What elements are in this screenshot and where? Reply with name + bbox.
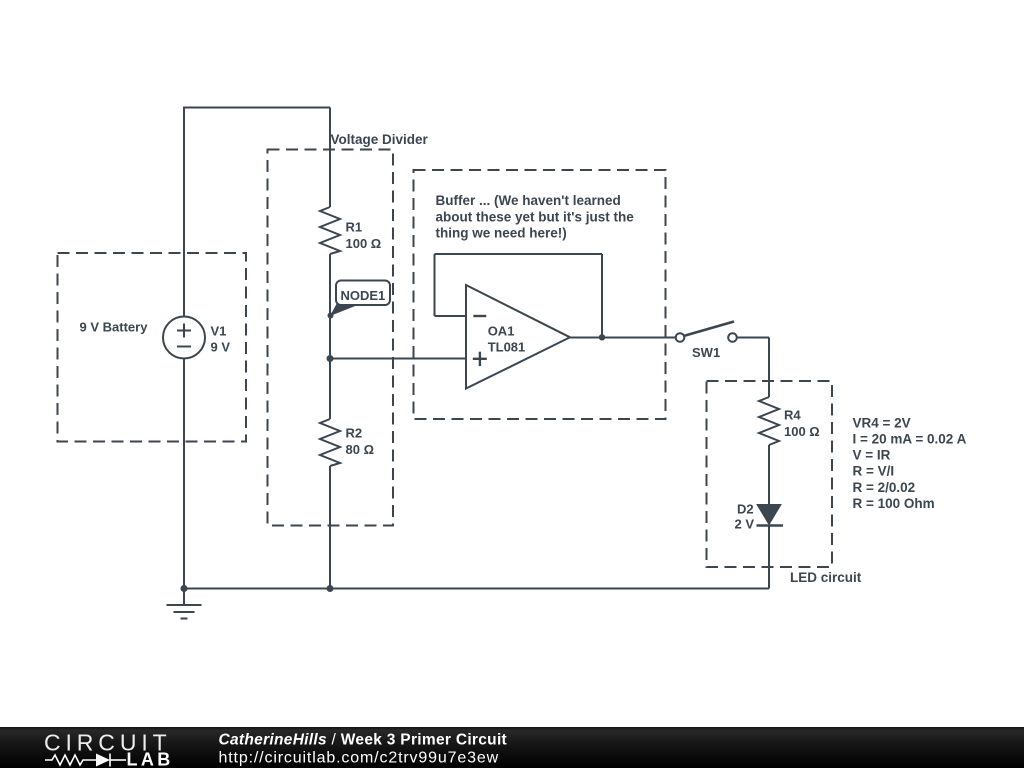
LED circuit dashed enclosure [707, 381, 833, 567]
wire minus input [435, 315, 467, 317]
svg-text:2 V: 2 V [735, 517, 755, 532]
svg-text:http://circuitlab.com/c2trv99u: http://circuitlab.com/c2trv99u7e3ew [219, 750, 500, 767]
battery dashed enclosure [58, 253, 247, 442]
footer bar [0, 727, 1024, 768]
svg-text:VR4 = 2V: VR4 = 2V [853, 415, 911, 430]
wire LED to rail [768, 526, 770, 589]
wire feedback top horizontal [435, 253, 603, 255]
svg-text:thing we need here!): thing we need here!) [436, 226, 567, 241]
svg-text:V = IR: V = IR [853, 448, 891, 463]
wire battery top vertical [183, 108, 185, 317]
LED D2 [757, 505, 784, 526]
svg-text:OA1: OA1 [488, 324, 515, 339]
node ground junction divider [327, 585, 334, 592]
resistor R2 [320, 419, 340, 466]
ground [183, 589, 185, 606]
svg-text:R = 2/0.02: R = 2/0.02 [853, 480, 916, 495]
svg-text:R = V/I: R = V/I [853, 464, 895, 479]
wire feedback left vertical [434, 254, 436, 316]
voltage divider dashed enclosure [268, 150, 394, 526]
svg-text:9 V Battery: 9 V Battery [80, 320, 149, 335]
switch SW1 [676, 322, 737, 342]
wire node to op-amp plus input [330, 358, 466, 360]
svg-text:LED circuit: LED circuit [790, 570, 862, 585]
svg-text:CatherineHills / Week 3 Primer: CatherineHills / Week 3 Primer Circuit [219, 732, 508, 749]
svg-text:Voltage Divider: Voltage Divider [331, 132, 429, 147]
svg-text:100 Ω: 100 Ω [346, 236, 382, 251]
svg-text:NODE1: NODE1 [341, 288, 386, 303]
wire battery bottom vertical [183, 359, 185, 589]
resistor R4 [759, 397, 779, 445]
wire switch to led branch [737, 337, 769, 339]
node NODE1 dot [328, 313, 334, 319]
wire ground rail [184, 588, 769, 590]
node ground junction left [181, 585, 188, 592]
wire feedback right vertical [601, 254, 603, 338]
svg-text:9 V: 9 V [211, 340, 231, 355]
node divider tap junction [327, 355, 334, 362]
svg-text:I = 20 mA = 0.02 A: I = 20 mA = 0.02 A [853, 432, 967, 447]
svg-text:about these yet but it's just: about these yet but it's just the [436, 209, 635, 224]
svg-text:SW1: SW1 [692, 345, 720, 360]
op-amp OA1 [466, 285, 570, 389]
node op-amp output junction [599, 334, 605, 340]
logo resistor diode glyph [45, 754, 126, 767]
svg-text:80 Ω: 80 Ω [346, 442, 375, 457]
wire divider top vertical [329, 108, 331, 208]
svg-text:Buffer ... (We haven't learned: Buffer ... (We haven't learned [436, 193, 621, 208]
buffer dashed enclosure [414, 170, 666, 419]
svg-text:R4: R4 [784, 408, 801, 423]
svg-text:R1: R1 [346, 220, 363, 235]
svg-text:100 Ω: 100 Ω [784, 424, 820, 439]
svg-text:D2: D2 [737, 502, 754, 517]
node NODE1 callout [330, 281, 390, 317]
wire R2 to rail [329, 466, 331, 589]
voltage source V1 [163, 317, 205, 359]
svg-text:R = 100 Ohm: R = 100 Ohm [853, 496, 935, 511]
node junction dots [181, 313, 606, 593]
svg-text:R2: R2 [346, 426, 363, 441]
resistor R1 [320, 207, 340, 254]
wire R1 to R2 [329, 254, 331, 419]
wire R4 to LED [768, 445, 770, 505]
wire top horizontal [183, 107, 330, 109]
wire op-amp output [570, 337, 676, 339]
wire led branch vertical top [768, 338, 770, 398]
svg-text:V1: V1 [211, 324, 227, 339]
svg-text:LAB: LAB [127, 750, 174, 768]
svg-text:TL081: TL081 [488, 340, 526, 355]
